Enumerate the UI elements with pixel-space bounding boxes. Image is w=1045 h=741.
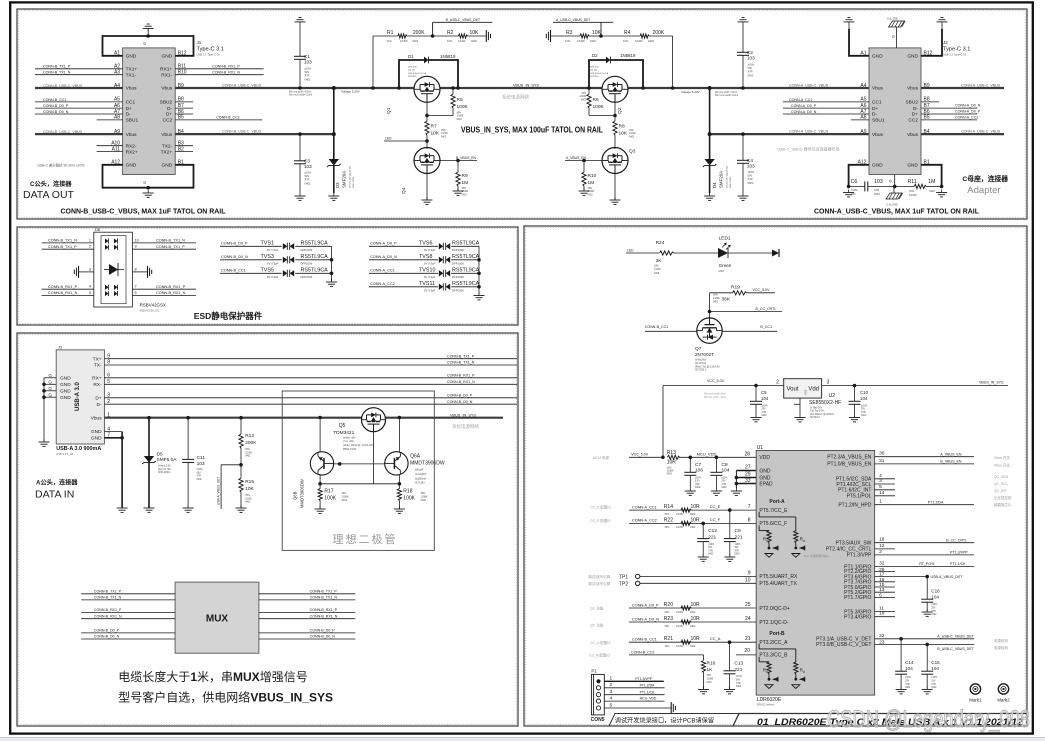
svg-text:0402: 0402 [762, 415, 768, 417]
svg-text:TVS1: TVS1 [261, 240, 274, 246]
net B_VBUS_EN wire [440, 156, 477, 162]
pull resistor R0 Port-A left [759, 526, 778, 558]
svg-text:CONN-B_TX1_N: CONN-B_TX1_N [156, 239, 185, 243]
svg-text:R4: R4 [624, 30, 631, 36]
svg-text:X7R: X7R [197, 476, 202, 478]
wire J3 GND pins to ground [104, 432, 123, 508]
wire P1 pin4 MCU_VDD [604, 696, 664, 702]
svg-text:RX2+: RX2+ [126, 149, 138, 155]
svg-text:100K: 100K [593, 104, 605, 110]
svg-text:1M: 1M [588, 180, 595, 186]
svg-text:Vbus: Vbus [161, 132, 173, 138]
svg-text:CONN-B_CC1: CONN-B_CC1 [632, 638, 657, 642]
capacitor C1 [294, 25, 312, 90]
svg-text:CONN-B_USB-C_VBUS: CONN-B_USB-C_VBUS [222, 84, 262, 88]
chassis ground below J2 [886, 175, 903, 207]
ground J1 bottom [143, 190, 154, 197]
wire J1 bottom GND bracket [103, 165, 194, 190]
svg-text:TVS6: TVS6 [419, 240, 432, 246]
svg-text:R5: R5 [457, 97, 463, 103]
svg-text:X7R: X7R [874, 188, 879, 192]
svg-text:CC1: CC1 [126, 100, 136, 106]
svg-text:R22: R22 [664, 517, 673, 523]
ESD array D6 RSBV42GSX [94, 227, 166, 313]
svg-text:(VF) 40V: (VF) 40V [590, 67, 599, 69]
connector J2 Type-C 3.1 [858, 40, 971, 175]
svg-text:±10%: ±10% [736, 676, 742, 678]
svg-text:C10: C10 [860, 390, 869, 395]
svg-text:电源检测: 电源检测 [994, 638, 1008, 643]
svg-text:200K: 200K [653, 30, 665, 36]
wire MUX to CONN-B_D0_N (right) [259, 635, 355, 639]
svg-text:±10%: ±10% [851, 188, 858, 192]
svg-text:6: 6 [135, 291, 137, 295]
svg-text:B_CC1: B_CC1 [760, 325, 772, 329]
svg-text:Vbus 开关: Vbus 开关 [994, 455, 1010, 460]
svg-text:PT1.3/VPP: PT1.3/VPP [950, 551, 968, 555]
svg-text:10R: 10R [691, 517, 701, 523]
svg-text:SBU1: SBU1 [126, 118, 139, 124]
svg-text:104: 104 [931, 595, 939, 600]
svg-text:X7R: X7R [748, 177, 753, 181]
wire CONN-A_D0_N from J2 B7 [921, 104, 981, 108]
TVS diode TVS5 RS5TL9CA [220, 267, 332, 279]
wire VBUS rail B4 right segment (thick) [710, 130, 869, 134]
svg-text:USB-C 差分阻抗 90 ohm ±10%: USB-C 差分阻抗 90 ohm ±10% [38, 163, 85, 168]
svg-text:±5%: ±5% [707, 675, 712, 677]
svg-text:(Id) 115mA: (Id) 115mA [695, 362, 707, 365]
wire U1 pin16 stub [875, 577, 895, 583]
wire U1 pin6 stub [875, 592, 895, 598]
svg-text:±10%: ±10% [861, 406, 867, 408]
svg-text:A_VBUS_EN: A_VBUS_EN [940, 452, 962, 456]
svg-text:RS5TL9CA: RS5TL9CA [452, 240, 480, 246]
svg-text:6: 6 [879, 592, 882, 598]
svg-text:GND: GND [907, 54, 918, 60]
svg-text:MCU_VDD: MCU_VDD [640, 697, 657, 701]
svg-text:G: G [48, 386, 52, 391]
svg-text:Q7: Q7 [695, 346, 702, 352]
svg-text:Vbus: Vbus [161, 86, 173, 92]
svg-text:5: 5 [879, 484, 882, 490]
svg-text:0402: 0402 [707, 682, 713, 684]
wire D6 pin6 CONN-B_RX1_N [132, 291, 196, 296]
wire MUX to CONN-B_TX1_P (right) [259, 589, 355, 593]
wire CONN-B_TX1_N to J1 A3 [35, 71, 123, 75]
wire J2 B1 to R11 [921, 165, 943, 188]
svg-text:D: D [803, 539, 805, 543]
svg-text:C3: C3 [304, 158, 310, 163]
svg-text:R11: R11 [908, 179, 917, 185]
svg-text:PT1.1/CK: PT1.1/CK [640, 690, 655, 694]
svg-text:0402-: 0402- [695, 487, 701, 489]
wire J1 B2 stub [175, 151, 193, 153]
svg-text:PT3.2/CC_A: PT3.2/CC_A [759, 640, 788, 646]
svg-text:USB 3.1 Type-C 16: USB 3.1 Type-C 16 [197, 53, 221, 57]
net RT_POSI / PT1.1/CK wire (pin32) [875, 561, 974, 567]
svg-text:C16: C16 [931, 589, 940, 594]
svg-text:1N5819: 1N5819 [440, 54, 456, 59]
svg-text:TVS10: TVS10 [419, 267, 435, 273]
wire CONN-B_TX1_P to MUX [81, 589, 175, 593]
wire U1 pin26 stub [875, 567, 895, 573]
resistor R6 100K [579, 88, 616, 117]
ground J3 GND [117, 505, 128, 512]
svg-text:1: 1 [610, 676, 613, 682]
svg-text:TX1-: TX1- [126, 72, 137, 78]
svg-text:MCU 电源: MCU 电源 [593, 455, 609, 460]
ground below J2 A12 [843, 190, 854, 197]
svg-text:CONN-B_TX1_N: CONN-B_TX1_N [94, 596, 122, 600]
svg-text:25V: 25V [722, 481, 727, 483]
svg-text:CONN-B_USB-C_VBUS: CONN-B_USB-C_VBUS [222, 130, 262, 134]
svg-text:C1: C1 [304, 54, 310, 59]
wire J1 top GND bracket [103, 34, 194, 56]
svg-text:Min neck width<12mil: Min neck width<12mil [289, 94, 312, 97]
svg-text:10R: 10R [667, 460, 677, 466]
svg-text:±10%: ±10% [735, 544, 741, 546]
svg-text:0402: 0402 [342, 499, 348, 502]
wire Q2 gate node [614, 102, 616, 121]
wire CONN-A_D0_N to J2 A7 [783, 110, 869, 114]
svg-text:221: 221 [708, 534, 716, 540]
wire CONN-B_RX1_N to MUX [81, 614, 175, 618]
svg-text:103: 103 [197, 461, 205, 467]
svg-text:±10%: ±10% [748, 170, 755, 174]
resistor R4 200K [601, 30, 674, 90]
svg-text:±5%: ±5% [457, 113, 462, 115]
ground below Q4 [422, 174, 433, 205]
svg-text:0402: 0402 [690, 645, 696, 648]
svg-text:QFN32_4x4mm: QFN32_4x4mm [757, 703, 775, 706]
svg-text:CONN-A_USB-C_VBUS: CONN-A_USB-C_VBUS [961, 130, 1001, 134]
svg-text:PT1.2/IN_HPD: PT1.2/IN_HPD [838, 503, 871, 509]
MCU U1 LDR6020E [756, 445, 874, 707]
svg-text:接模拟芯片: 接模拟芯片 [994, 502, 1012, 507]
svg-text:CONN-B_TX1_P: CONN-B_TX1_P [310, 589, 338, 593]
svg-text:0402: 0402 [471, 39, 477, 43]
svg-text:PT1.3/VPP: PT1.3/VPP [635, 677, 653, 681]
svg-text:DFP1006: DFP1006 [452, 262, 464, 266]
svg-text:X7R: X7R [931, 684, 936, 686]
net port arrow after LED1 [772, 249, 779, 257]
svg-text:J2: J2 [943, 40, 948, 45]
svg-text:0402: 0402 [245, 456, 251, 458]
svg-text:50V: 50V [708, 547, 713, 549]
svg-text:0402: 0402 [931, 687, 937, 689]
svg-text:D2: D2 [592, 53, 598, 58]
svg-text:CONN-B_D0_N: CONN-B_D0_N [221, 255, 248, 259]
ground below R16 [698, 687, 709, 694]
svg-text:20: 20 [744, 648, 750, 654]
svg-text:2N7002T: 2N7002T [695, 352, 714, 357]
svg-text:0402: 0402 [735, 554, 741, 556]
wire TVS right group to ground [477, 246, 481, 294]
svg-text:21: 21 [745, 636, 751, 642]
wire Q6 base rail [334, 462, 385, 466]
svg-text:9: 9 [748, 570, 751, 576]
svg-text:RX1+: RX1+ [160, 67, 172, 73]
net A_VBUS_EN wire (pin30) [875, 451, 1011, 460]
svg-text:TX1+: TX1+ [126, 67, 138, 73]
svg-text:SBU1: SBU1 [872, 118, 885, 124]
svg-text:R10: R10 [588, 173, 597, 179]
svg-text:±5%: ±5% [462, 188, 467, 190]
ground below C8 [711, 488, 722, 495]
svg-text:10R: 10R [691, 636, 701, 642]
svg-text:19: 19 [879, 611, 885, 617]
wire CONN-A_CC1 to J2 A5 [783, 98, 869, 102]
capacitor C2 [737, 25, 755, 90]
svg-text:D-: D- [872, 112, 877, 118]
svg-text:CONN-B_D0_P: CONN-B_D0_P [43, 104, 69, 108]
wire U1 pin11 stub [875, 606, 895, 612]
svg-text:(Ipp) 21.75A: (Ipp) 21.75A [158, 468, 171, 471]
note min line width right [681, 90, 738, 97]
transistor Q3 (NMOS) [602, 148, 636, 174]
svg-text:X5R: X5R [695, 484, 700, 486]
signal ground P1 pin5 [670, 702, 676, 714]
svg-text:Q3: Q3 [629, 149, 636, 155]
svg-text:CC_A 配置IO: CC_A 配置IO [590, 640, 611, 645]
svg-text:P1: P1 [591, 669, 597, 674]
svg-text:GND: GND [60, 375, 71, 381]
svg-text:±20%: ±20% [695, 478, 701, 480]
net A_USB-C_VBUS_DET wire (pin22) [875, 633, 1009, 643]
svg-text:0402: 0402 [861, 415, 867, 417]
svg-text:R12: R12 [245, 433, 254, 439]
svg-text:MMDT3906DW: MMDT3906DW [300, 479, 305, 508]
svg-text:100K: 100K [403, 495, 415, 501]
svg-text:1/16W: 1/16W [676, 526, 684, 529]
svg-text:U1: U1 [757, 445, 764, 451]
svg-text:1/16W: 1/16W [400, 39, 408, 43]
svg-text:0402: 0402 [748, 181, 754, 185]
svg-text:LED: LED [627, 249, 634, 253]
wire CONN-B_D0_P to MUX [81, 629, 175, 633]
svg-text:DFP1006: DFP1006 [301, 262, 313, 266]
capacitor C14 104 [895, 639, 914, 689]
svg-text:±10%: ±10% [708, 544, 714, 546]
svg-text:DFP1006: DFP1006 [452, 289, 464, 293]
svg-text:±1%: ±1% [565, 39, 571, 43]
ground TVS left group [326, 279, 337, 286]
svg-text:2pin 可选配置为输入: 2pin 可选配置为输入 [804, 554, 830, 558]
svg-text:5V 0.3pF: 5V 0.3pF [424, 275, 436, 279]
svg-text:1M: 1M [928, 179, 935, 185]
svg-text:A4: A4 [860, 83, 866, 89]
svg-text:SOT-363: SOT-363 [415, 482, 425, 485]
svg-text:±10%: ±10% [305, 171, 312, 175]
title block outline [609, 714, 1027, 727]
svg-text:Vbus 开关: Vbus 开关 [994, 462, 1010, 467]
svg-text:CONN-B_CC1: CONN-B_CC1 [43, 98, 66, 102]
svg-text:1/16W: 1/16W [676, 645, 684, 648]
svg-text:PT1.1/CK: PT1.1/CK [950, 562, 966, 566]
svg-text:103: 103 [747, 55, 755, 60]
svg-text:RX2-: RX2- [126, 143, 137, 149]
svg-text:SBU2: SBU2 [905, 100, 918, 106]
svg-text:GND: GND [872, 163, 883, 169]
svg-text:CONN-B_CC1: CONN-B_CC1 [645, 325, 668, 329]
svg-text:Min neck width<8mil: Min neck width<8mil [704, 393, 726, 396]
svg-text:CONN-B_RX1_N: CONN-B_RX1_N [48, 291, 78, 295]
wire U1 pin4 stub [875, 473, 895, 479]
svg-text:G: G [48, 380, 52, 385]
svg-text:25V: 25V [905, 680, 910, 682]
svg-text:Vbus: Vbus [872, 86, 884, 92]
svg-text:0402: 0402 [748, 73, 754, 77]
svg-text:SOD323: SOD323 [590, 76, 599, 78]
svg-text:RT_POSI: RT_POSI [919, 562, 934, 566]
svg-text:±1%: ±1% [623, 39, 629, 43]
svg-text:RS5TL9CA: RS5TL9CA [301, 267, 329, 273]
svg-text:CC_A: CC_A [710, 636, 721, 641]
wire Q7 to B_CC1 [722, 325, 777, 331]
svg-text:CC1: CC1 [872, 100, 882, 106]
svg-text:A_USB-C_VBUS_DET: A_USB-C_VBUS_DET [937, 634, 974, 638]
zener diode D3 SMF20A [327, 86, 355, 193]
svg-text:1/16W: 1/16W [629, 133, 636, 135]
svg-text:Min neck width<12mil: Min neck width<12mil [715, 94, 738, 97]
svg-text:5V 0.3pF: 5V 0.3pF [267, 248, 279, 252]
svg-text:SOD-123FL: SOD-123FL [353, 176, 355, 188]
svg-text:±10%: ±10% [762, 406, 768, 408]
svg-text:10K: 10K [619, 131, 628, 137]
capacitor C3 [294, 132, 312, 193]
ground below R9 [453, 188, 464, 195]
svg-text:103: 103 [304, 59, 312, 64]
wire CONN-B_TX1_P to D6 pin2 [42, 245, 94, 250]
wire U1 pin3 stub [875, 478, 895, 484]
svg-text:R19: R19 [731, 285, 740, 291]
svg-text:SOD-123FL: SOD-123FL [158, 472, 171, 474]
zener diode D5 SMF5.0A [142, 416, 177, 508]
svg-text:G: G [143, 181, 147, 184]
svg-text:CC_E 配置IO: CC_E 配置IO [590, 505, 611, 510]
wire D6 pin7 CONN-B_RX1_P [132, 285, 196, 290]
svg-text:200K: 200K [245, 440, 257, 446]
resistor R3 10K [552, 30, 602, 43]
capacitor C16 104 [921, 575, 940, 616]
svg-text:±10%: ±10% [931, 604, 937, 606]
svg-text:D-: D- [126, 112, 131, 118]
wire MUX to CONN-B_RX1_P (right) [259, 608, 355, 612]
svg-text:CONN-B_D0_P: CONN-B_D0_P [310, 629, 336, 633]
svg-text:X7R: X7R [722, 484, 727, 486]
svg-text:106: 106 [695, 467, 703, 473]
chassis ground above J2 [887, 18, 905, 48]
svg-text:Vout: Vout [787, 387, 799, 393]
transistor Q1 (PMOS load switch) [386, 76, 440, 114]
pull resistor R0 Port-B left [759, 657, 778, 689]
ground below D5 [144, 505, 155, 512]
wire J1 B6 stub [175, 113, 193, 115]
svg-text:±10%: ±10% [197, 469, 203, 471]
svg-text:DATA OUT: DATA OUT [23, 189, 75, 201]
svg-text:GND: GND [91, 429, 102, 435]
svg-text:±10%: ±10% [931, 677, 937, 679]
note min line width left [289, 89, 360, 96]
svg-text:TVS8: TVS8 [419, 254, 432, 260]
wire Vbus to Q6B emitter [318, 416, 322, 452]
svg-text:103: 103 [304, 164, 312, 169]
svg-text:PT5.5/UART_RX: PT5.5/UART_RX [759, 574, 798, 580]
svg-text:R3: R3 [566, 30, 573, 36]
resistor R19 36K [710, 285, 776, 319]
wire CONN-B_RX1_P from J1 B11 [175, 65, 263, 69]
svg-text:0402: 0402 [690, 611, 696, 614]
svg-text:X7R: X7R [736, 683, 741, 685]
ground below R17 [315, 506, 326, 513]
ground below C7 [685, 488, 696, 495]
svg-text:调试/烧写引脚: 调试/烧写引脚 [588, 574, 610, 579]
svg-text:D+: D+ [126, 106, 132, 112]
svg-text:CONN-B_TX1_N: CONN-B_TX1_N [48, 239, 77, 243]
ground above C2 [738, 18, 749, 26]
svg-text:(VF) 40V: (VF) 40V [408, 67, 417, 69]
svg-text:CONN-B_CC2: CONN-B_CC2 [631, 650, 654, 654]
svg-text:1/16W: 1/16W [441, 133, 448, 135]
svg-text:C15: C15 [931, 660, 940, 665]
svg-text:Vbus: Vbus [126, 86, 138, 92]
svg-text:PT3.4/GPIO: PT3.4/GPIO [844, 615, 871, 621]
svg-text:CONN-B_TX1_P: CONN-B_TX1_P [156, 245, 185, 249]
svg-text:33: 33 [745, 478, 751, 484]
svg-text:PT5.1/POL: PT5.1/POL [847, 494, 872, 500]
svg-text:24: 24 [745, 616, 751, 622]
TVS diode TVS10 RS5TL9CA [369, 267, 480, 279]
svg-text:SMF5.0A: SMF5.0A [157, 457, 178, 463]
wire U1 pin19 stub [875, 611, 895, 617]
svg-text:0402: 0402 [441, 136, 447, 138]
svg-text:12: 12 [879, 543, 885, 549]
svg-text:PT1.3/VPP: PT1.3/VPP [847, 553, 872, 559]
svg-text:CC_E: CC_E [710, 504, 721, 509]
svg-text:CONN-B_RX1_P: CONN-B_RX1_P [94, 608, 122, 612]
wire J2 B12 to ground [921, 29, 942, 56]
wire U1 pin13 stub [875, 587, 895, 593]
svg-text:TX2-: TX2- [162, 143, 173, 149]
ground below R18 [394, 506, 405, 513]
svg-text:C7: C7 [695, 462, 701, 468]
svg-text:±5%: ±5% [667, 467, 672, 469]
svg-text:CONN-A_D0_P: CONN-A_D0_P [632, 603, 659, 607]
resistor R16 1K [701, 655, 715, 689]
svg-text:1/16W: 1/16W [635, 39, 643, 43]
svg-text:Vbus: Vbus [126, 132, 138, 138]
net label A_USB-C_VBUS_DET [553, 18, 613, 38]
svg-text:50V: 50V [748, 66, 753, 70]
svg-text:5: 5 [610, 702, 613, 708]
svg-text:CONN-A_D0_N: CONN-A_D0_N [370, 255, 397, 259]
svg-text:CC2: CC2 [163, 118, 173, 124]
svg-text:D6: D6 [95, 227, 101, 232]
resistor R14 10R [590, 504, 756, 516]
label C receptacle connector [962, 174, 1008, 196]
svg-text:1/16W: 1/16W [713, 298, 720, 300]
svg-text:PT5.6/CC_F: PT5.6/CC_F [759, 521, 787, 527]
test point TP1 [588, 570, 756, 580]
svg-text:GND: GND [126, 163, 137, 169]
svg-text:7: 7 [135, 285, 137, 289]
svg-text:±5%: ±5% [581, 93, 586, 95]
svg-text:1/16W: 1/16W [245, 452, 252, 454]
svg-text:30: 30 [879, 451, 885, 457]
svg-text:CONN-A_CC2: CONN-A_CC2 [955, 116, 978, 120]
net VCC_5.0V wire to U2 [663, 379, 784, 458]
svg-text:Voltage 5.20V: Voltage 5.20V [681, 90, 700, 94]
